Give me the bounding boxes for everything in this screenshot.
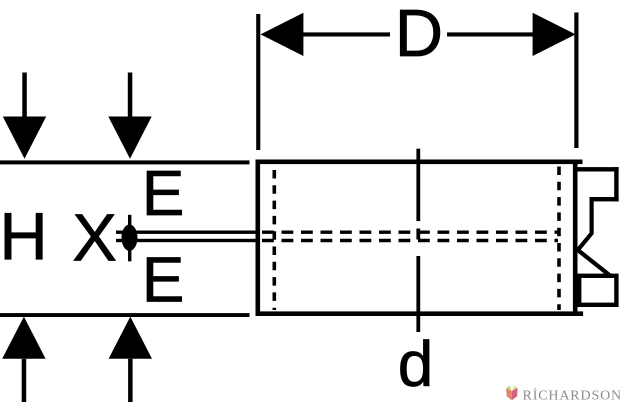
clamp top lug top edge [577, 167, 619, 171]
insertion depth dashed line right [557, 167, 561, 311]
body top edge stub [575, 160, 582, 165]
D extension line right [574, 13, 578, 149]
X leader double line lower (solid) [116, 239, 258, 242]
down arrow 1 stem [22, 73, 27, 118]
vertical centerline lower segment [416, 256, 420, 332]
down arrow 2 stem [128, 73, 133, 118]
svg-text:RİCHARDSON: RİCHARDSON [523, 387, 620, 402]
body bottom edge stub [575, 311, 583, 316]
svg-text:d: d [398, 328, 434, 400]
D dimension line left segment [301, 32, 390, 36]
svg-text:E: E [142, 157, 185, 229]
up arrow 2 stem [128, 359, 133, 402]
up arrow 1 stem [22, 359, 27, 402]
D dimension arrowhead left [261, 13, 304, 56]
D dimension arrowhead right [533, 13, 576, 56]
up arrow 1 head [2, 317, 45, 359]
insertion depth dashed line left [272, 170, 276, 310]
coupling body outline [258, 162, 575, 314]
clamp bottom lug [579, 276, 616, 305]
bottom guide line (H lower) [0, 313, 250, 317]
down arrow 1 head [3, 117, 46, 159]
inner bore dashed line lower [262, 239, 558, 242]
svg-text:H: H [0, 200, 48, 275]
clamp top lug right edge [614, 167, 618, 201]
Richardson logo leaf left [506, 385, 511, 391]
top guide line (H upper) [0, 160, 250, 164]
D dimension line right segment [447, 32, 535, 36]
svg-text:X: X [72, 201, 117, 276]
Richardson logo leaf right [512, 385, 518, 391]
clamp screw shaft and latch zigzag [578, 197, 611, 276]
D extension line left [256, 14, 260, 150]
down arrow 2 head [108, 117, 151, 159]
clamp top lug bottom edge [590, 197, 619, 201]
X leader double line upper (solid) [116, 231, 258, 234]
Richardson logo box left face [506, 388, 512, 400]
X leader vertical tick [128, 215, 131, 261]
svg-text:E: E [142, 243, 185, 315]
svg-text:D: D [395, 0, 443, 71]
vertical centerline short dash [416, 229, 420, 240]
inner bore dashed line upper [262, 230, 558, 233]
up arrow 2 head [109, 317, 152, 359]
vertical centerline upper segment [416, 149, 420, 221]
Richardson logo box right face [512, 388, 518, 401]
X leader dot [122, 225, 138, 251]
